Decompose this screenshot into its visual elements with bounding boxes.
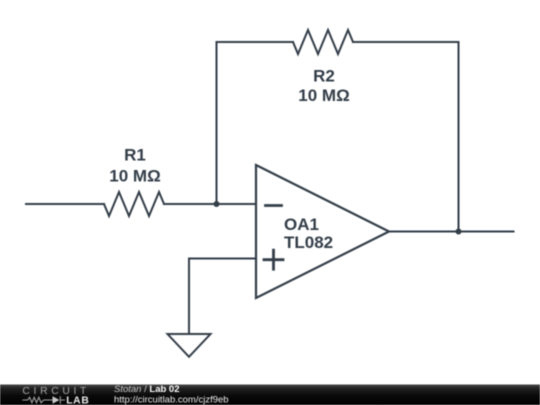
CircuitLab logo resistor zigzag and diode icon bbox=[22, 396, 65, 404]
wire feedback left vertical bbox=[216, 42, 218, 204]
CircuitLab logo diode triangle bbox=[53, 396, 60, 403]
wire feedback top right bbox=[353, 41, 459, 43]
wire feedback top left bbox=[217, 41, 294, 43]
svg-text:R1: R1 bbox=[124, 146, 146, 165]
svg-text:OA1: OA1 bbox=[284, 215, 319, 234]
wire non-inverting input bbox=[189, 258, 256, 260]
op-amp inverting pin minus bbox=[266, 204, 282, 207]
svg-text:10 MΩ: 10 MΩ bbox=[109, 167, 160, 186]
svg-text:R2: R2 bbox=[313, 67, 335, 86]
wire op-amp output bbox=[389, 231, 514, 233]
resistor R1 bbox=[104, 192, 164, 216]
node B output junction dot bbox=[456, 229, 462, 235]
op-amp non-inverting pin plus bbox=[264, 250, 283, 269]
svg-text:TL082: TL082 bbox=[284, 233, 333, 252]
svg-text:LAB: LAB bbox=[66, 395, 89, 405]
wire R1 to op-amp inverting input bbox=[164, 203, 256, 205]
svg-text:10 MΩ: 10 MΩ bbox=[298, 86, 349, 105]
wire feedback right vertical bbox=[458, 42, 460, 232]
wire input to R1 bbox=[26, 203, 104, 205]
resistor R2 bbox=[293, 30, 353, 54]
op-amp U1 triangle bbox=[256, 165, 389, 298]
svg-text:http://circuitlab.com/cjzf9eb: http://circuitlab.com/cjzf9eb bbox=[114, 395, 229, 405]
wire to ground bbox=[188, 259, 190, 335]
node A junction dot bbox=[214, 201, 220, 207]
ground bbox=[168, 334, 211, 357]
svg-text:Stotan / Lab 02: Stotan / Lab 02 bbox=[114, 384, 180, 395]
footer bar bbox=[0, 385, 540, 405]
